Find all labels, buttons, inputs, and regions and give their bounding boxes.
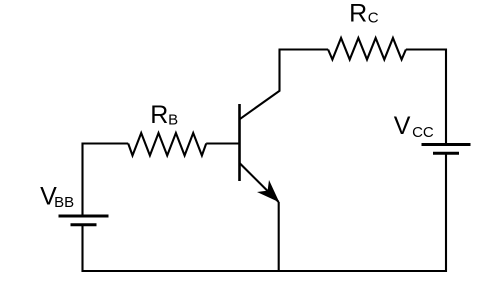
svg-text:CC: CC xyxy=(412,124,434,141)
battery V_CC short plate xyxy=(433,152,459,155)
svg-text:BB: BB xyxy=(54,194,74,211)
battery V_BB long plate xyxy=(59,215,109,218)
transistor Q1 emitter arrowhead xyxy=(257,180,279,202)
transistor Q1 base bar xyxy=(238,104,241,181)
wire: R_B to transistor base xyxy=(206,142,239,144)
battery V_BB short plate xyxy=(71,223,97,226)
wire: emitter down to bottom rail xyxy=(278,202,280,271)
svg-text:V: V xyxy=(394,112,411,140)
svg-text:B: B xyxy=(168,112,178,129)
resistor R_C xyxy=(328,38,406,60)
svg-text:C: C xyxy=(368,9,379,26)
battery V_CC long plate xyxy=(422,143,471,146)
wire: V_CC down to bottom rail, bottom rail, up to V_BB xyxy=(83,153,447,271)
svg-text:R: R xyxy=(150,101,168,129)
wire: top rail left segment xyxy=(279,48,329,50)
resistor R_B xyxy=(128,133,206,156)
transistor Q1 collector lead and wire up to top rail xyxy=(240,50,280,120)
svg-text:R: R xyxy=(349,0,367,28)
transistor Q1 emitter lead xyxy=(240,163,279,202)
wire: base loop left (V_BB top to corner, then right to R_B) xyxy=(83,144,129,217)
wire: top rail right segment down to V_CC xyxy=(406,50,446,145)
